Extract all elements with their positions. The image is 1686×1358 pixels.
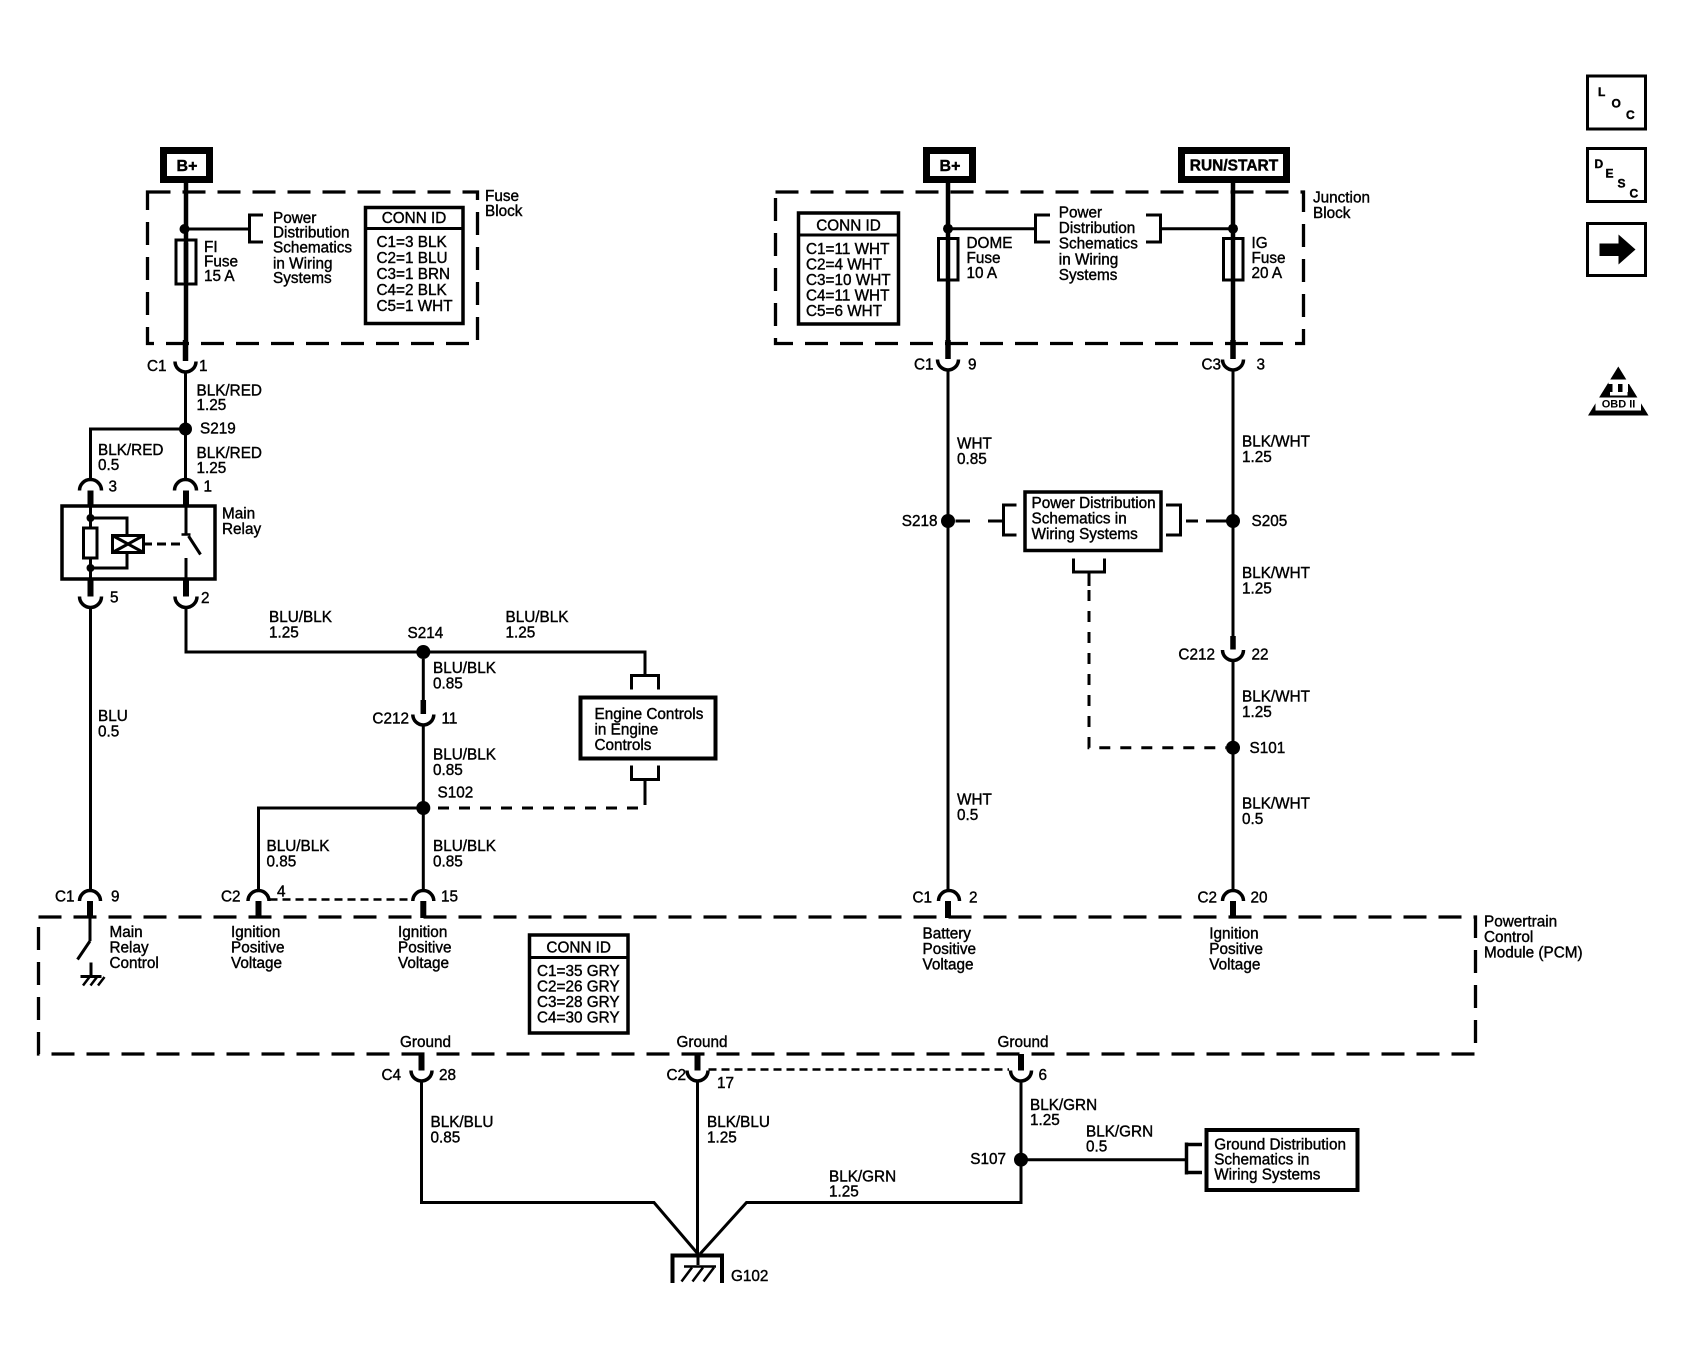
CONN ID table (junction block) [799, 213, 899, 324]
CONN ID table (fuse block) [366, 208, 464, 324]
svg-text:RUN/START: RUN/START [1190, 158, 1279, 175]
svg-text:0.85: 0.85 [433, 676, 463, 693]
relay coil box with X [113, 536, 153, 553]
svg-text:S205: S205 [1252, 513, 1288, 530]
connector C3 pin 3 (junction block) [1201, 357, 1265, 374]
OBD II icon [1588, 367, 1649, 416]
svg-text:WHT: WHT [957, 436, 992, 453]
svg-text:C4=30 GRY: C4=30 GRY [537, 1010, 620, 1027]
svg-text:5: 5 [110, 590, 119, 607]
svg-text:C212: C212 [1178, 647, 1215, 664]
svg-text:G102: G102 [731, 1268, 768, 1285]
Fuse Block dashed enclosure [148, 192, 478, 344]
svg-text:0.85: 0.85 [433, 762, 463, 779]
svg-text:Block: Block [1313, 205, 1351, 222]
label BLK/GRN 1.25 (right) [1030, 1097, 1097, 1129]
svg-text:BLU/BLK: BLU/BLK [269, 609, 333, 626]
wire S214 down to C212 pin 11 [422, 659, 425, 700]
svg-text:C4=2 BLK: C4=2 BLK [377, 282, 448, 299]
svg-text:9: 9 [111, 889, 120, 906]
page-link bracket below engine controls box [630, 766, 660, 795]
svg-text:11: 11 [442, 711, 458, 728]
svg-text:C: C [1626, 108, 1635, 122]
label BLK/RED 1.25 [197, 383, 262, 415]
svg-text:BLK/WHT: BLK/WHT [1242, 689, 1310, 706]
svg-text:Junction: Junction [1313, 190, 1370, 207]
label BLK/WHT 1.25 (top) [1242, 434, 1310, 467]
connector C212 pin 11 [372, 700, 457, 728]
svg-text:Positive: Positive [231, 940, 285, 957]
svg-text:Ignition: Ignition [398, 924, 447, 941]
wire C3/3 to S205 to C212 pin 22 [1232, 370, 1235, 636]
svg-text:Voltage: Voltage [1209, 957, 1260, 974]
svg-text:S: S [1618, 177, 1626, 191]
svg-text:Systems: Systems [1059, 267, 1118, 284]
svg-text:C3=10 WHT: C3=10 WHT [806, 272, 891, 289]
svg-text:1.25: 1.25 [506, 625, 536, 642]
svg-text:1.25: 1.25 [1030, 1112, 1060, 1129]
svg-text:S102: S102 [438, 785, 474, 802]
B+ power symbol (left fuse block feed) [160, 147, 213, 183]
connector C2 pin 4 (PCM) [221, 884, 286, 919]
wire relay pin 5 to PCM C1 pin 9 [89, 608, 92, 891]
RUN/START power symbol [1178, 147, 1290, 183]
B+ power symbol (junction block feed) [923, 147, 976, 183]
svg-text:0.85: 0.85 [957, 451, 987, 468]
svg-text:0.5: 0.5 [1242, 811, 1263, 828]
svg-text:Schematics: Schematics [1059, 236, 1138, 253]
svg-text:C4=11 WHT: C4=11 WHT [806, 288, 889, 305]
svg-text:0.5: 0.5 [98, 457, 119, 474]
wire pin 6 to S107 to G102 [700, 1081, 1021, 1254]
splice node S214 [416, 645, 430, 659]
svg-text:Module (PCM): Module (PCM) [1484, 944, 1583, 961]
dashed connector line pin17 to pin6 [709, 1068, 1010, 1071]
svg-text:0.5: 0.5 [1086, 1138, 1107, 1155]
svg-text:C212: C212 [372, 711, 409, 728]
label BLK/WHT 1.25 (below C212) [1242, 689, 1310, 722]
splice node S102 [416, 801, 430, 815]
label BLK/RED 0.5 [98, 442, 163, 474]
CONN ID table (PCM) [530, 935, 629, 1033]
svg-text:CONN ID: CONN ID [546, 939, 611, 956]
svg-text:Wiring Systems: Wiring Systems [1032, 526, 1139, 543]
svg-text:Engine Controls: Engine Controls [595, 706, 704, 723]
dashed wire to S101 [1089, 590, 1226, 748]
svg-text:Relay: Relay [222, 521, 261, 538]
svg-text:Ignition: Ignition [1209, 926, 1258, 943]
connector pin 2 (main relay) [183, 579, 189, 597]
svg-text:C2=4 WHT: C2=4 WHT [806, 257, 882, 274]
svg-text:Ignition: Ignition [231, 924, 280, 941]
wire fuse to connector C1 pin 1 [184, 284, 189, 340]
connector C1 pin 9 (PCM main relay control) [55, 889, 120, 919]
svg-text:0.85: 0.85 [431, 1130, 461, 1147]
page-link bracket below power distribution box [1072, 559, 1106, 587]
label BLU/BLK 0.85 [433, 660, 497, 693]
svg-text:4: 4 [277, 884, 286, 901]
wire S102 branch to PCM C2 pin 4 [259, 808, 424, 891]
wire branch to bracket [948, 227, 1036, 230]
svg-text:C1=3 BLK: C1=3 BLK [377, 234, 448, 251]
svg-text:E: E [1606, 167, 1614, 181]
svg-text:3: 3 [109, 479, 118, 496]
wire branch to page-link bracket [186, 228, 250, 231]
label BLU/BLK 0.85 (branch) [267, 838, 331, 871]
svg-text:D: D [1595, 157, 1604, 171]
svg-text:28: 28 [439, 1067, 456, 1084]
svg-text:Controls: Controls [595, 737, 652, 754]
label FI Fuse 15 A [204, 239, 238, 285]
svg-text:Relay: Relay [110, 940, 149, 957]
svg-text:Powertrain: Powertrain [1484, 914, 1557, 931]
svg-text:Power: Power [1059, 204, 1102, 221]
fuse IG 20A [1224, 235, 1286, 282]
svg-text:Voltage: Voltage [398, 955, 449, 972]
page-link bracket (ground distribution) [1185, 1143, 1202, 1175]
dashed wire engine controls to S102 [428, 794, 645, 808]
svg-text:C2: C2 [666, 1067, 686, 1084]
svg-text:Ground: Ground [400, 1034, 451, 1051]
svg-text:BLK/WHT: BLK/WHT [1242, 434, 1310, 451]
svg-text:2: 2 [201, 590, 210, 607]
connector C212 pin 22 [1178, 636, 1268, 664]
label WHT 0.85 [957, 436, 992, 469]
svg-text:1: 1 [204, 479, 213, 496]
svg-text:BLK/BLU: BLK/BLU [431, 1114, 494, 1131]
fuse DOME 10A [939, 235, 1013, 282]
dashed connector line pin4 to pin15 [270, 898, 413, 901]
PCM internal switch (main relay control driver) [78, 918, 92, 976]
svg-text:1.25: 1.25 [1242, 581, 1272, 598]
svg-text:Battery: Battery [923, 926, 972, 943]
page-link bracket (left of power distribution box) [1002, 504, 1017, 537]
relay switch contact [182, 506, 201, 579]
svg-text:C3=1 BRN: C3=1 BRN [377, 266, 451, 283]
svg-text:S219: S219 [200, 421, 236, 438]
connector pin 6 (PCM ground) [1011, 1054, 1048, 1084]
svg-text:L: L [1598, 85, 1605, 99]
wire to S219 [184, 372, 187, 429]
svg-text:BLU/BLK: BLU/BLK [267, 838, 331, 855]
label BLU/BLK 1.25 [269, 609, 333, 642]
connector pin 1 (main relay) [175, 479, 213, 496]
svg-text:C2: C2 [221, 889, 241, 906]
svg-text:0.5: 0.5 [98, 724, 119, 741]
svg-text:1.25: 1.25 [1242, 704, 1272, 721]
label: Power Distribution Schematics in Wiring Systems (junction block) [1059, 204, 1138, 284]
label BLK/GRN 0.5 [1086, 1123, 1153, 1155]
LOC icon box [1588, 76, 1646, 129]
Power Distribution Schematics box [1025, 492, 1161, 551]
wire C212 pin 22 through S101 to PCM C2 pin 20 [1232, 661, 1235, 891]
wire S219 to relay pin 1 [184, 429, 187, 480]
label BLK/BLU 0.85 [431, 1114, 494, 1147]
connector C1 pin 9 (junction block) [914, 357, 977, 374]
Junction Block dashed enclosure [776, 192, 1304, 344]
wire branch S219 to relay pin 3 [91, 429, 186, 480]
splice node S107 [1014, 1153, 1028, 1167]
svg-text:20 A: 20 A [1252, 265, 1283, 282]
svg-text:17: 17 [717, 1075, 734, 1092]
svg-text:Schematics in: Schematics in [1032, 511, 1127, 528]
node on RUN/START feed [1228, 224, 1238, 234]
label: Power Distribution Schematics in Wiring Systems (fuse block) [273, 210, 352, 287]
label Main Relay Control [110, 924, 159, 972]
page-link bracket above engine controls box [630, 676, 660, 690]
splice node S219 [179, 423, 192, 436]
svg-text:1.25: 1.25 [829, 1184, 859, 1201]
connector C4 pin 28 (PCM ground) [381, 1054, 456, 1084]
connector C2 pin 17 (PCM ground) [666, 1054, 734, 1092]
svg-text:BLK/WHT: BLK/WHT [1242, 565, 1310, 582]
svg-text:C4: C4 [381, 1067, 401, 1084]
svg-text:1.25: 1.25 [707, 1130, 737, 1147]
svg-text:1.25: 1.25 [1242, 449, 1272, 466]
svg-text:Positive: Positive [923, 941, 977, 958]
svg-text:Block: Block [485, 203, 523, 220]
label WHT 0.5 [957, 792, 992, 825]
DESC icon box [1588, 149, 1646, 202]
svg-text:0.85: 0.85 [267, 854, 297, 871]
svg-text:BLU/BLK: BLU/BLK [433, 747, 497, 764]
connector pin 3 (main relay) [80, 479, 118, 496]
node: branch junction on B+ feed [943, 224, 953, 234]
relay coil branch [84, 506, 128, 579]
wire bracket to IG feed [1161, 227, 1234, 230]
svg-text:C: C [1630, 187, 1639, 201]
arrow icon box [1588, 224, 1646, 276]
svg-text:22: 22 [1252, 647, 1269, 664]
splice node S218 [941, 514, 955, 528]
svg-text:2: 2 [969, 890, 978, 907]
wire RUN/START to IG fuse [1231, 183, 1236, 240]
svg-text:9: 9 [968, 357, 977, 374]
wire C4/28 to G102 [422, 1081, 699, 1254]
svg-text:C1: C1 [914, 357, 934, 374]
svg-text:Distribution: Distribution [1059, 220, 1136, 237]
Ground Distribution box [1207, 1130, 1358, 1190]
svg-text:BLU/BLK: BLU/BLK [506, 609, 570, 626]
label Ignition Positive Voltage (pin 15) [398, 924, 452, 972]
svg-text:3: 3 [1257, 357, 1266, 374]
label BLK/BLU 1.25 [707, 1114, 770, 1147]
svg-text:0.85: 0.85 [433, 854, 463, 871]
label BLU/BLK 1.25 (right) [506, 609, 570, 642]
svg-text:Wiring Systems: Wiring Systems [1214, 1167, 1321, 1184]
svg-text:OBD II: OBD II [1602, 399, 1636, 411]
splice node S101 [1226, 741, 1240, 755]
svg-text:Systems: Systems [273, 270, 332, 287]
node: branch junction on B+ feed [180, 224, 190, 234]
svg-text:1.25: 1.25 [197, 397, 227, 414]
Fuse Block label [485, 188, 523, 220]
svg-text:C1=11 WHT: C1=11 WHT [806, 241, 889, 258]
relay K: Main Relay box [62, 506, 215, 579]
wire S214 to engine controls link [423, 652, 645, 674]
mechanical link dashes [157, 543, 180, 546]
page-link bracket (right of power distribution box) [1166, 504, 1182, 537]
svg-text:WHT: WHT [957, 792, 992, 809]
label BLU/BLK 0.85 [433, 747, 497, 780]
svg-text:15: 15 [441, 889, 458, 906]
svg-text:Positive: Positive [1209, 941, 1263, 958]
label BLU/BLK 0.85 (middle) [433, 838, 497, 871]
svg-text:in Wiring: in Wiring [1059, 251, 1119, 268]
svg-text:1.25: 1.25 [269, 625, 299, 642]
wire C1/9 to S218 to PCM C1 pin 2 [947, 370, 950, 891]
splice node S205 [1226, 514, 1240, 528]
wire segments bracket to S205 [1186, 520, 1198, 523]
label Battery Positive Voltage [923, 926, 977, 974]
label BLU 0.5 [98, 708, 128, 741]
svg-text:B+: B+ [940, 158, 961, 175]
svg-text:C2=26 GRY: C2=26 GRY [537, 979, 620, 996]
wire segments S218 to bracket [956, 520, 971, 523]
wire DOME fuse down [946, 279, 951, 340]
svg-text:BLU/BLK: BLU/BLK [433, 660, 497, 677]
connector pin 5 (main relay) [88, 579, 94, 597]
svg-text:Main: Main [222, 506, 255, 523]
page-link bracket left (junction block power distribution) [1034, 214, 1050, 244]
connector pin 15 (PCM) [413, 889, 458, 919]
svg-text:C5=6 WHT: C5=6 WHT [806, 303, 882, 320]
page-link bracket (fuse block power distribution) [248, 214, 263, 244]
svg-text:BLU/BLK: BLU/BLK [433, 838, 497, 855]
svg-text:15 A: 15 A [204, 268, 235, 285]
wire C2/17 to G102 [696, 1081, 699, 1255]
wire IG fuse down [1231, 279, 1236, 340]
svg-text:C1: C1 [912, 890, 932, 907]
svg-text:0.5: 0.5 [957, 807, 978, 824]
svg-text:Main: Main [110, 924, 143, 941]
svg-text:C1=35 GRY: C1=35 GRY [537, 963, 620, 980]
svg-text:10 A: 10 A [967, 265, 998, 282]
svg-text:6: 6 [1039, 1067, 1048, 1084]
wire S107 to ground distribution bracket [1021, 1158, 1187, 1161]
svg-text:CONN ID: CONN ID [816, 218, 881, 235]
connector C1 pin 2 (PCM battery positive) [912, 890, 977, 919]
svg-text:Power Distribution: Power Distribution [1032, 495, 1156, 512]
svg-text:S218: S218 [902, 513, 938, 530]
svg-text:C3: C3 [1201, 357, 1221, 374]
ground (PCM internal) [81, 977, 105, 986]
svg-text:S214: S214 [408, 625, 444, 642]
svg-text:C5=1 WHT: C5=1 WHT [377, 298, 453, 315]
label Ignition Positive Voltage (pin 20) [1209, 926, 1263, 974]
svg-text:O: O [1612, 97, 1621, 111]
svg-text:20: 20 [1251, 890, 1268, 907]
svg-text:BLK/BLU: BLK/BLU [707, 1114, 770, 1131]
svg-text:C1: C1 [55, 889, 75, 906]
svg-text:Control: Control [110, 955, 159, 972]
Junction Block label [1313, 190, 1370, 223]
wire B+ to DOME fuse [946, 183, 951, 240]
svg-text:1: 1 [199, 358, 208, 375]
svg-text:Ground: Ground [997, 1034, 1048, 1051]
svg-text:B+: B+ [177, 158, 198, 175]
svg-text:Voltage: Voltage [923, 957, 974, 974]
page-link bracket right [1146, 214, 1162, 244]
ground G102 [671, 1254, 769, 1285]
svg-text:C2=1 BLU: C2=1 BLU [377, 250, 448, 267]
svg-text:CONN ID: CONN ID [382, 210, 447, 227]
label BLK/GRN 1.25 (bottom run) [829, 1168, 896, 1200]
svg-text:Voltage: Voltage [231, 955, 282, 972]
svg-text:C3=28 GRY: C3=28 GRY [537, 994, 620, 1011]
label Ignition Positive Voltage (pin 4) [231, 924, 285, 972]
wire S102 down to PCM pin 15 [422, 808, 425, 891]
label BLK/RED 1.25 (lower) [197, 445, 262, 477]
fuse FI 15A [176, 240, 196, 284]
svg-text:BLU: BLU [98, 708, 128, 725]
svg-text:C2: C2 [1197, 890, 1217, 907]
svg-text:Schematics: Schematics [273, 239, 352, 256]
svg-text:S101: S101 [1250, 740, 1286, 757]
label BLK/WHT 0.5 [1242, 796, 1310, 829]
svg-text:BLK/WHT: BLK/WHT [1242, 796, 1310, 813]
Engine Controls box [581, 698, 716, 759]
connector C1 pin 1 (fuse block output) [147, 358, 208, 375]
svg-text:1.25: 1.25 [197, 460, 227, 477]
connector C2 pin 20 (PCM ignition positive) [1197, 890, 1267, 919]
svg-text:in Engine: in Engine [595, 722, 659, 739]
svg-text:C1: C1 [147, 358, 167, 375]
svg-text:Positive: Positive [398, 940, 452, 957]
wire B+ to FI fuse [184, 183, 189, 240]
svg-text:S107: S107 [970, 1151, 1006, 1168]
label BLK/WHT 1.25 (below S205) [1242, 565, 1310, 598]
Powertrain Control Module (PCM) dashed enclosure [39, 917, 1476, 1054]
wire C212 pin 11 to S102 [422, 726, 425, 809]
wire relay pin 2 to S214 [186, 608, 423, 653]
svg-text:Ground: Ground [676, 1034, 727, 1051]
